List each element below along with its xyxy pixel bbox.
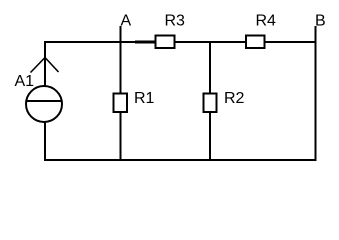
wire node B branch vertical	[315, 26, 317, 161]
wire middle branch vertical to R2	[209, 41, 211, 161]
svg-text:A: A	[121, 13, 132, 30]
svg-text:R4: R4	[256, 13, 277, 30]
resistor R1	[114, 94, 128, 113]
wire bottom horizontal return	[44, 159, 317, 161]
resistor R3	[156, 36, 175, 49]
wire thick lead into R3	[135, 41, 156, 44]
wire left branch vertical (source A1 leg)	[44, 41, 46, 161]
svg-text:B: B	[315, 13, 326, 30]
svg-text:A1: A1	[15, 73, 35, 90]
current source A1	[26, 58, 62, 123]
resistor R4	[246, 36, 265, 49]
resistor R2	[204, 94, 217, 113]
wire top horizontal from A1 branch to node B	[44, 41, 317, 43]
svg-text:R2: R2	[224, 90, 245, 107]
svg-text:R1: R1	[134, 90, 155, 107]
wire node A branch vertical	[120, 26, 122, 161]
svg-text:R3: R3	[165, 13, 186, 30]
